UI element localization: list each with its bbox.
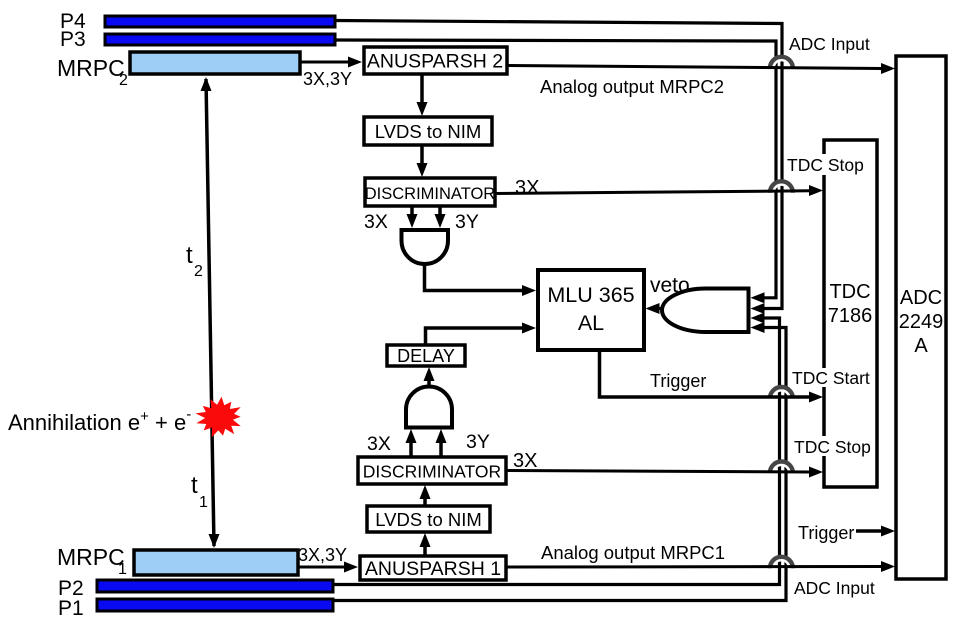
detector MRPC1 [57,544,298,578]
svg-text:MRPC: MRPC [57,55,125,81]
wire LVDS2 up to DISCRIMINATOR2 [420,485,431,506]
svg-text:3X: 3X [513,450,537,472]
svg-text:2249: 2249 [899,311,944,333]
svg-text:LVDS to NIM: LVDS to NIM [375,121,482,142]
svg-text:3X: 3X [364,211,388,233]
label Annihilation e+ + e- [8,406,191,435]
wire MLU trigger to TDC Start with hop, label Trigger [600,350,824,403]
svg-text:2: 2 [119,72,128,89]
wire analog output MRPC1 to ADC with hop, labels [506,542,895,598]
label TDC Stop (top) [786,154,864,175]
svg-text:DISCRIMINATOR: DISCRIMINATOR [365,185,496,203]
svg-text:AL: AL [578,311,604,335]
detector MRPC2 [57,52,300,89]
label t2 [186,242,203,280]
svg-text:P1: P1 [58,597,84,620]
wire DELAY to MLU [426,323,537,346]
veto output arrow into MLU [646,303,664,314]
paddle P1 [58,597,333,620]
box LVDS to NIM (bottom) [367,506,490,532]
svg-text:LVDS to NIM: LVDS to NIM [375,509,482,530]
paddle P3 [60,28,335,51]
veto gate (AND pointing left) with label veto [650,274,749,332]
wire DISCRIMINATOR2 3X to TDC Stop with hop, label 3X [506,450,823,478]
box LVDS to NIM (top) [364,117,492,145]
label TDC Stop (bottom) [793,436,871,457]
box ANUSPARSH 2 [364,47,507,74]
svg-text:2: 2 [194,263,203,280]
svg-text:ADC Input: ADC Input [789,34,870,54]
svg-text:A: A [914,335,928,357]
wire DISCRIMINATOR 3X to TDC Stop with hop, label 3X [495,177,823,199]
svg-text:TDC Stop: TDC Stop [787,155,864,175]
svg-text:ANUSPARSH 1: ANUSPARSH 1 [365,558,501,580]
box DISCRIMINATOR (top) [365,178,496,206]
wire analog output MRPC2 to ADC with hop, labels [507,34,895,97]
veto input arrows [751,292,765,333]
svg-text:3X,3Y: 3X,3Y [303,69,352,89]
svg-text:Analog output MRPC1: Analog output MRPC1 [541,542,725,563]
wire trigger into ADC, label Trigger [798,523,895,543]
box ANUSPARSH 1 [360,556,506,580]
svg-text:t: t [191,472,198,499]
wires DISCRIMINATOR2 to AND2, labels 3X 3Y [367,429,490,457]
svg-text:Trigger: Trigger [798,523,854,543]
paddle P4 [60,10,335,33]
wire P2 to veto input 3 [333,318,780,585]
label t1 [191,472,208,511]
wire P4 to veto input 2 [335,21,782,309]
svg-text:3Y: 3Y [455,211,479,233]
svg-text:3X,3Y: 3X,3Y [298,545,347,565]
annihilation starburst [196,397,241,437]
svg-text:P3: P3 [60,28,86,51]
box DISCRIMINATOR (bottom) [358,457,506,484]
label TDC Start [791,368,870,388]
wire MRPC1 to ANUSPARSH1, label 3X,3Y [298,545,358,573]
svg-text:MLU 365: MLU 365 [547,283,634,307]
annihilation double arrow [201,77,220,548]
svg-text:DELAY: DELAY [397,346,455,366]
svg-text:ANUSPARSH 2: ANUSPARSH 2 [367,51,503,73]
AND gate U2 (pointing up) [406,387,452,428]
wire ANUSPARSH1 up to LVDS2 [420,533,431,556]
box DELAY [387,345,465,366]
paddle P2 [58,577,333,600]
svg-text:veto: veto [650,274,690,297]
svg-text:Analog output MRPC2: Analog output MRPC2 [540,76,724,97]
svg-text:MRPC: MRPC [57,544,125,570]
svg-text:1: 1 [199,494,208,511]
wire MRPC2 to ANUSPARSH2, label 3X,3Y [300,57,362,90]
box TDC 7186 [824,140,877,487]
svg-text:ADC Input: ADC Input [794,578,875,598]
svg-text:ADC: ADC [900,287,942,309]
AND gate U1 (pointing down) [402,230,449,264]
wire ANUSPARSH2 down to LVDS [417,74,428,116]
wires DISCRIMINATOR to AND gate, labels 3X 3Y [364,206,479,233]
svg-text:3X: 3X [367,433,391,455]
box ADC 2249 A [896,56,946,579]
svg-text:3Y: 3Y [466,431,490,453]
svg-text:Annihilation e+ + e-: Annihilation e+ + e- [8,406,191,435]
wire P1 to veto input 4 [333,328,786,601]
wire AND2 output to DELAY [424,367,435,391]
svg-text:TDC: TDC [829,281,870,303]
wire P3 to veto input 1 [335,40,776,298]
svg-text:TDC Stop: TDC Stop [794,437,871,457]
svg-text:DISCRIMINATOR: DISCRIMINATOR [363,462,501,482]
wire LVDS down to DISCRIMINATOR [417,145,428,177]
svg-text:3X: 3X [515,177,539,199]
box MLU 365 AL [538,270,644,350]
svg-text:7186: 7186 [828,305,873,327]
svg-text:TDC Start: TDC Start [792,368,870,388]
svg-text:1: 1 [118,561,127,578]
wire AND1 output to MLU [425,265,537,297]
svg-text:Trigger: Trigger [650,371,706,391]
svg-text:t: t [186,242,193,269]
